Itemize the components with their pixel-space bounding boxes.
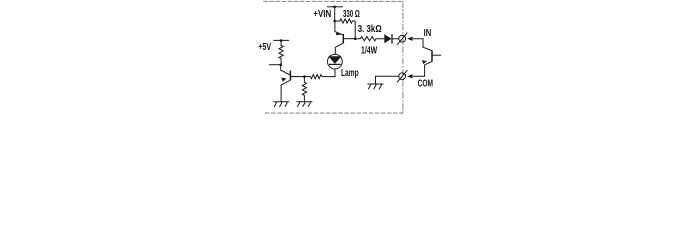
+5V power bar [273, 39, 289, 41]
wire Q2 base node to R5 [355, 38, 360, 40]
diode D1 cathode bar [391, 34, 393, 43]
lamp L1 circle [328, 54, 343, 69]
Q2 collector wire down to lamp [335, 43, 343, 54]
Q2 emitter wire from 330 node [335, 21, 343, 35]
wire diode to IN terminal [392, 38, 398, 40]
svg-text:COM: COM [418, 78, 433, 89]
wire base line to Q1 base [291, 76, 304, 78]
lamp cathode bar [329, 63, 341, 65]
node dot at +5V bar [280, 39, 283, 42]
transistor Q3 base bar [431, 50, 433, 61]
svg-text:330 Ω: 330 Ω [343, 9, 360, 20]
svg-text:1/4W: 1/4W [361, 46, 378, 57]
stub wire going left [269, 64, 281, 66]
wire +VIN bar down to 330 ohm resistor [334, 7, 336, 21]
dashed boundary right edge [402, 1, 404, 113]
node dot collector node [279, 63, 282, 66]
+VIN power bar [327, 6, 343, 8]
dashed boundary bottom edge [265, 112, 403, 114]
Q2 base wire [344, 38, 355, 40]
svg-text:IN: IN [424, 28, 432, 39]
terminal circle IN [399, 35, 406, 42]
node dot at 330 ohm left end / Q2 emitter node [333, 20, 336, 23]
boundary bottom-right corner [400, 111, 403, 113]
ground B slashes [297, 102, 310, 107]
resistor R2 (vertical zigzag from +5V) [279, 40, 283, 64]
node dot at +VIN bar [333, 6, 336, 9]
wire COM terminal to ground C [376, 76, 399, 84]
Q1 base wire [291, 76, 304, 78]
slash through COM terminal [397, 70, 407, 82]
diode D1 triangle [384, 34, 391, 43]
svg-text:Lamp: Lamp [341, 68, 359, 79]
svg-text:+VIN: +VIN [313, 9, 331, 20]
ground A bar [273, 101, 289, 103]
resistor R1 330 ohm (horizontal zigzag) [335, 19, 356, 23]
wire lamp bottom to base line [322, 69, 335, 77]
ground C bar [367, 83, 383, 85]
arrowhead at IN terminal [407, 37, 412, 41]
ground A slashes [274, 102, 287, 107]
transistor Q2 (PNP, middle) base bar [342, 34, 344, 44]
Q3 emitter wire [412, 62, 432, 77]
Q2 emitter arrow [336, 32, 341, 35]
transistor Q1 base bar [289, 71, 291, 81]
resistor R4 (vertical zigzag to ground) [302, 77, 306, 102]
Q3 base stub [433, 54, 442, 56]
transistor Q1 collector wire [281, 65, 290, 75]
Q1 emitter arrow [281, 78, 286, 82]
ground B bar [297, 101, 313, 103]
arrowhead at COM terminal [407, 74, 412, 78]
resistor R3 (horizontal zigzag on base line) [304, 75, 322, 79]
node dot at Q2 base / 3.3k junction [354, 37, 357, 40]
Q1 emitter wire [281, 80, 290, 101]
node dot base line / R4 junction [303, 75, 306, 78]
dashed boundary top edge [263, 0, 403, 2]
resistor R5 3.3k (horizontal zigzag) [360, 37, 384, 41]
slash through IN terminal [397, 33, 407, 45]
wire IN terminal to Q3 collector [412, 39, 432, 51]
terminal circle COM [399, 73, 406, 80]
svg-text:3. 3kΩ: 3. 3kΩ [358, 24, 382, 35]
Q3 emitter arrow [422, 60, 427, 64]
wire 330 ohm right end down to base node [354, 21, 356, 39]
ground C slashes [368, 84, 381, 89]
svg-text:+5V: +5V [258, 42, 271, 53]
lamp LED triangle [328, 56, 341, 64]
